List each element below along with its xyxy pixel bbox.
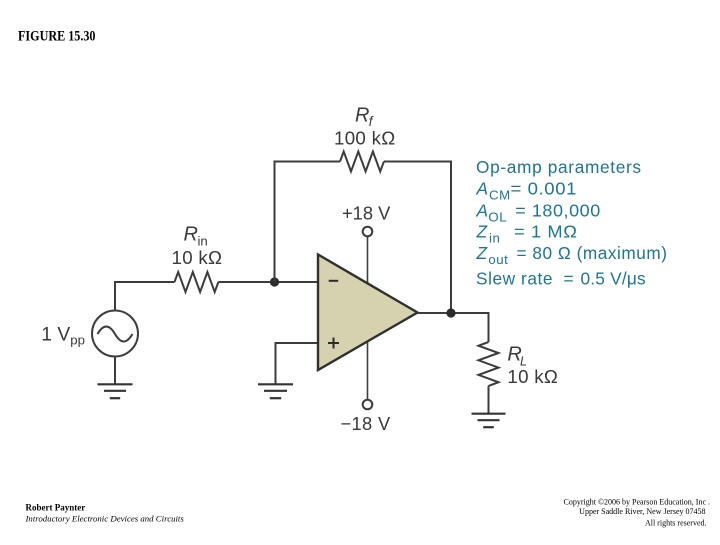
svg-text:Copyright ©2006 by Pearson Edu: Copyright ©2006 by Pearson Education, In… bbox=[564, 497, 711, 506]
label RL bbox=[507, 343, 527, 368]
svg-text:R: R bbox=[184, 223, 198, 245]
ground (op-amp non-inverting input) bbox=[258, 384, 293, 398]
footer credit left bbox=[25, 502, 185, 523]
node B output junction dot bbox=[446, 308, 455, 317]
svg-text:ACM= 0.001: ACM= 0.001 bbox=[476, 178, 578, 202]
wire: feedback left vertical bbox=[275, 162, 341, 283]
ground (source) bbox=[98, 384, 133, 398]
slide title FIGURE 15.30 bbox=[18, 29, 96, 45]
svg-text:10 kΩ: 10 kΩ bbox=[507, 366, 558, 387]
svg-text:10 kΩ: 10 kΩ bbox=[172, 247, 223, 268]
label +18 V bbox=[342, 203, 391, 224]
op-amp U1 triangle bbox=[318, 255, 418, 371]
wire: RL bottom to ground bbox=[488, 386, 490, 413]
svg-text:All rights reserved.: All rights reserved. bbox=[645, 518, 707, 527]
resistor Rin zigzag bbox=[175, 272, 219, 292]
svg-text:Zout= 80 Ω (maximum): Zout= 80 Ω (maximum) bbox=[476, 243, 668, 267]
op-amp inverting pin minus sign bbox=[329, 280, 339, 282]
wire: source bottom lead to ground bbox=[114, 357, 116, 384]
node A junction dot (inverting input) bbox=[270, 277, 279, 286]
svg-text:−18 V: −18 V bbox=[341, 413, 391, 434]
svg-text:Robert Paynter: Robert Paynter bbox=[26, 502, 86, 512]
wire: supply vertical (behind op-amp) bbox=[367, 237, 369, 400]
source V1 sine symbol bbox=[98, 327, 133, 342]
wire: non-inverting input to ground bbox=[276, 343, 319, 384]
ground (RL) bbox=[472, 414, 506, 428]
svg-text:100 kΩ: 100 kΩ bbox=[334, 128, 396, 149]
label Rf bbox=[355, 105, 374, 130]
svg-text:Introductory Electronic Device: Introductory Electronic Devices and Circ… bbox=[25, 513, 185, 523]
wire: Rin right to op-amp inverting input bbox=[218, 281, 318, 283]
op-amp non-inverting pin plus sign bbox=[328, 338, 339, 349]
svg-text:Slew rate=0.5 V/μs: Slew rate=0.5 V/μs bbox=[476, 269, 646, 289]
resistor RL zigzag (vertical) bbox=[479, 342, 499, 386]
svg-text:Upper Saddle River, New Jersey: Upper Saddle River, New Jersey 07458 bbox=[579, 507, 705, 516]
terminal -18 V open circle bbox=[363, 400, 373, 410]
terminal +18 V open circle bbox=[363, 227, 373, 237]
svg-text:FIGURE 15.30: FIGURE 15.30 bbox=[18, 29, 96, 45]
resistor Rf zigzag bbox=[340, 152, 384, 172]
op-amp parameters heading bbox=[476, 157, 668, 289]
label -18 V bbox=[341, 413, 391, 434]
footer copyright right bbox=[564, 497, 711, 527]
svg-text:Op-amp parameters: Op-amp parameters bbox=[476, 157, 642, 177]
svg-text:pp: pp bbox=[70, 332, 85, 347]
source V1 sine generator circle bbox=[92, 311, 138, 357]
label Rin bbox=[184, 223, 208, 248]
svg-text:Zin= 1 MΩ: Zin= 1 MΩ bbox=[476, 222, 578, 246]
label 1 Vpp bbox=[41, 324, 85, 347]
value 100 kOhm (Rf) bbox=[334, 128, 396, 149]
svg-text:1 V: 1 V bbox=[41, 324, 70, 345]
wire: feedback right vertical down to output node bbox=[384, 162, 451, 314]
value 10 kOhm (RL) bbox=[507, 366, 558, 387]
svg-text:+18 V: +18 V bbox=[342, 203, 391, 224]
svg-text:R: R bbox=[355, 105, 369, 127]
value 10 kOhm (Rin) bbox=[172, 247, 223, 268]
wire: source top lead to Rin left bbox=[115, 282, 175, 311]
wire: op-amp output to RL corner bbox=[418, 313, 489, 342]
